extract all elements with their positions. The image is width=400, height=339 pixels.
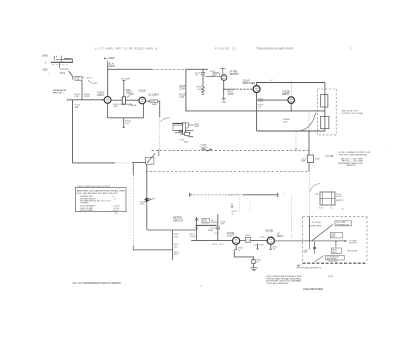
label 02 AF AMPLIFIER bbox=[243, 79, 256, 85]
wire bottom return line bbox=[257, 130, 325, 132]
svg-text:NORM OPER: NORM OPER bbox=[309, 226, 322, 228]
wire grid return vertical bbox=[171, 230, 173, 260]
resistor R121 box bbox=[245, 235, 259, 246]
wire cathode V101B down bbox=[143, 104, 145, 118]
wire cathode bus lower bbox=[234, 250, 254, 257]
resistor R120 drop bbox=[235, 244, 244, 251]
svg-text:1OK: 1OK bbox=[220, 224, 225, 226]
wire diag pointer bbox=[315, 255, 324, 262]
resistor R108 zigzag bbox=[197, 86, 205, 95]
svg-text:. . . . . . . .: . . . . . . . . bbox=[96, 196, 103, 198]
node line tick bbox=[45, 62, 47, 63]
label V103A 12AU7 bbox=[227, 232, 235, 238]
arc supply pointer bbox=[310, 184, 320, 192]
capacitor C106 bbox=[208, 214, 226, 246]
svg-text:+12 VU: +12 VU bbox=[105, 200, 112, 202]
resistor R102 label row bbox=[75, 94, 91, 98]
svg-text:OUTPUT: OUTPUT bbox=[349, 243, 358, 245]
svg-text:KEY SHOWN IN NORM POS: KEY SHOWN IN NORM POS bbox=[296, 267, 321, 269]
svg-text:.1MF: .1MF bbox=[76, 79, 80, 81]
label METER CIRCUIT bbox=[173, 216, 184, 222]
svg-text:↓: ↓ bbox=[391, 143, 392, 146]
svg-text:. . . . . . .: . . . . . . . bbox=[96, 208, 102, 210]
wire plate line to output bbox=[257, 83, 325, 86]
tube V101B bbox=[139, 97, 146, 104]
wire dotted link down bbox=[308, 171, 310, 216]
svg-text:COPY ALSO APPLIES: COPY ALSO APPLIES bbox=[266, 282, 289, 285]
wire to switch bbox=[132, 161, 146, 163]
svg-text:MON OUT AMP: MON OUT AMP bbox=[80, 209, 94, 212]
wire cathode V102A down bbox=[256, 93, 258, 131]
svg-text:1OOK: 1OOK bbox=[197, 89, 204, 91]
svg-text:2.2K: 2.2K bbox=[258, 101, 263, 103]
wire switch drop bbox=[132, 163, 134, 175]
wire B plate supply link bbox=[190, 193, 278, 198]
svg-text:FIG. 172 TRANSMISSION CIRCUIT: FIG. 172 TRANSMISSION CIRCUIT DESIGN bbox=[73, 282, 122, 285]
junction rail node bbox=[291, 110, 292, 111]
resistor drop mid bbox=[256, 244, 258, 250]
svg-text:LINE AMPLIFIER: LINE AMPLIFIER bbox=[303, 287, 323, 291]
svg-text:PGM AMP: PGM AMP bbox=[80, 202, 89, 205]
svg-text:5OK: 5OK bbox=[214, 233, 219, 235]
wire meter bus horizontal bbox=[147, 229, 197, 231]
wire C101 to grid bus bbox=[81, 80, 83, 100]
wire dotted drops to lower row bbox=[239, 197, 241, 214]
svg-text:5OOK: 5OOK bbox=[203, 222, 209, 224]
wire cathode V102B to rail bbox=[290, 103, 292, 111]
jack strip assembly bbox=[173, 123, 195, 137]
tube V101B labels bbox=[138, 90, 159, 96]
svg-text:1OO: 1OO bbox=[246, 240, 250, 242]
wire B+ dropper vertical bbox=[185, 69, 187, 111]
svg-text:C1O7: C1O7 bbox=[253, 244, 259, 246]
resistor chain labels bbox=[174, 234, 180, 256]
table of levels bbox=[75, 185, 126, 215]
svg-text:TERM: TERM bbox=[221, 102, 227, 104]
resistor R116 box bbox=[202, 219, 218, 224]
note text block right bbox=[338, 152, 371, 167]
wire supply into box bbox=[309, 217, 311, 242]
svg-text:12AU7: 12AU7 bbox=[227, 235, 235, 238]
svg-text:PAD: PAD bbox=[331, 235, 335, 238]
wire ground rail bbox=[186, 110, 325, 112]
svg-text:NOTE: CONNECT OUTPUT COIL: NOTE: CONNECT OUTPUT COIL bbox=[339, 152, 372, 154]
wire dotted long drop bbox=[132, 175, 134, 246]
label TO LINE bbox=[349, 240, 358, 244]
ground symbol small bbox=[231, 204, 239, 216]
svg-text:47K: 47K bbox=[114, 106, 118, 108]
title header text bbox=[95, 47, 352, 51]
ground main bbox=[250, 268, 257, 271]
wire dotted feedback tap bbox=[295, 132, 297, 149]
jack labels bbox=[179, 124, 200, 143]
svg-text:V1O3B: V1O3B bbox=[266, 230, 274, 232]
svg-text:2MF: 2MF bbox=[301, 161, 306, 163]
svg-text:KEY OPER: KEY OPER bbox=[329, 261, 339, 263]
wire dash line lower bbox=[146, 170, 309, 172]
svg-text:12-B: 12-B bbox=[328, 276, 333, 278]
svg-text:4 MFD: 4 MFD bbox=[129, 94, 135, 96]
svg-text:12AU7: 12AU7 bbox=[97, 94, 105, 97]
svg-text:22O: 22O bbox=[220, 244, 224, 246]
svg-text:12BH7: 12BH7 bbox=[282, 93, 290, 96]
svg-text:1.5K: 1.5K bbox=[179, 97, 184, 99]
svg-text:3OOV: 3OOV bbox=[336, 196, 342, 198]
svg-text:A 172 AMPL RPT 21-BF REQD AMP: A 172 AMPL RPT 21-BF REQD AMPL A bbox=[95, 47, 157, 51]
svg-text:SUP: SUP bbox=[283, 122, 288, 124]
svg-text:V1O1B: V1O1B bbox=[138, 90, 146, 92]
svg-text:AMPLIFIER: AMPLIFIER bbox=[243, 82, 256, 85]
wire main input bbox=[67, 98, 104, 101]
label V103B 12AU7 bbox=[266, 230, 285, 238]
capacitor C102 label below bbox=[74, 105, 80, 109]
svg-text:6OO: 6OO bbox=[140, 204, 145, 206]
svg-text:R1O1 1MF: R1O1 1MF bbox=[121, 79, 131, 81]
resistor R111 labels bbox=[258, 99, 264, 103]
svg-text:FOR LINE AMP AND REC AMP USE S: FOR LINE AMP AND REC AMP USE SET bbox=[77, 192, 119, 195]
label S101 KEY bbox=[309, 222, 322, 228]
svg-text:47OK: 47OK bbox=[84, 96, 90, 98]
svg-text:METER: METER bbox=[211, 222, 218, 224]
wire plate V101A up bbox=[107, 62, 109, 97]
svg-text:LINE: LINE bbox=[42, 54, 48, 58]
resistor R110 labels bbox=[227, 91, 234, 96]
wire stub below S101 bbox=[309, 242, 311, 250]
svg-text:INPUT ONLY→: INPUT ONLY→ bbox=[53, 93, 64, 95]
arc jack pointer bbox=[161, 118, 171, 122]
box pad bbox=[330, 232, 342, 238]
resistor gain box after V101B bbox=[146, 100, 158, 106]
svg-text:JACK: JACK bbox=[195, 125, 201, 128]
tube V103A bbox=[233, 237, 240, 244]
svg-text:GAIN: GAIN bbox=[152, 103, 157, 106]
svg-text:12.: 12. bbox=[200, 286, 203, 288]
transformer T101 bbox=[51, 56, 73, 69]
resistor R124 drop bbox=[252, 257, 262, 268]
label E101 tone bbox=[201, 144, 209, 148]
wire feedback vertical left bbox=[72, 100, 74, 163]
switch S102 box bbox=[146, 149, 159, 164]
wire cathode bus bbox=[108, 117, 144, 119]
wire to mon jack bbox=[335, 242, 337, 248]
transformer T103 dashed enclosure bbox=[318, 89, 337, 135]
box monitor amp bbox=[326, 255, 345, 263]
transformer winding lower bbox=[321, 116, 329, 128]
resistor R122 drop bbox=[270, 244, 279, 250]
label V102B 12BH7 bbox=[282, 90, 290, 96]
arc cable flourish bbox=[301, 113, 316, 131]
svg-text:22OK: 22OK bbox=[179, 89, 185, 91]
capacitor C102 vertical bbox=[122, 80, 126, 96]
tube V101A labels bbox=[97, 92, 105, 98]
svg-text:+4: +4 bbox=[114, 198, 116, 200]
tube V102B bbox=[288, 97, 295, 104]
capacitor C110 drop bbox=[304, 242, 317, 254]
svg-text:LEVEL: LEVEL bbox=[201, 147, 209, 149]
transformer winding upper bbox=[321, 95, 328, 107]
wire C105 branch down bbox=[308, 113, 310, 131]
wire feedback horizontal bbox=[73, 162, 116, 164]
label BRIDGING input bbox=[53, 90, 67, 94]
svg-text:B+ PLATE SUPPLY: B+ PLATE SUPPLY bbox=[225, 194, 242, 197]
tube V103B bbox=[267, 237, 274, 244]
arrow to note bbox=[325, 155, 333, 157]
wire grid V102B bbox=[257, 99, 288, 101]
svg-text:4MF: 4MF bbox=[74, 107, 79, 109]
junction out node bbox=[335, 241, 336, 242]
resistor R106 labels bbox=[179, 95, 186, 100]
svg-text:1OOK: 1OOK bbox=[227, 94, 234, 96]
svg-text:C1O8: C1O8 bbox=[212, 244, 218, 246]
node B+ feed bbox=[104, 56, 115, 63]
label 01A GAIN bbox=[109, 63, 115, 69]
svg-text:25O: 25O bbox=[174, 246, 178, 248]
grid tick bbox=[102, 99, 104, 101]
svg-text:C1O2: C1O2 bbox=[92, 83, 98, 85]
wire output row into box bbox=[274, 240, 344, 242]
svg-text:OFF NORM: OFF NORM bbox=[347, 251, 358, 253]
svg-text:FOR 6OO OHM LINE AS REQ: FOR 6OO OHM LINE AS REQ bbox=[339, 154, 368, 157]
label PLATE bbox=[283, 118, 290, 123]
wire between tubes bbox=[240, 239, 248, 241]
resistor R115 label bbox=[260, 237, 264, 246]
wire to V103B bbox=[251, 239, 268, 241]
resistor R107 box bbox=[205, 71, 221, 77]
svg-text:◆—150V: ◆—150V bbox=[104, 56, 115, 60]
tube V101A bbox=[104, 97, 111, 104]
wire grid V102A bbox=[224, 88, 236, 90]
resistor R104 drop bbox=[123, 118, 132, 128]
wire corner to meter bus bbox=[133, 246, 172, 250]
labels below wire R103 bbox=[114, 104, 137, 108]
svg-text:JACK: JACK bbox=[332, 251, 338, 254]
svg-text:5OOK: 5OOK bbox=[190, 236, 196, 238]
svg-text:R1O5: R1O5 bbox=[151, 101, 156, 103]
tube V102A bbox=[253, 86, 260, 93]
wire lower main row bbox=[191, 239, 232, 241]
dashed box line out bbox=[303, 217, 367, 264]
switch arm in box bbox=[312, 225, 332, 241]
svg-text:. . . . . . .: . . . . . . . bbox=[96, 198, 102, 200]
node LINE input label bbox=[41, 54, 49, 72]
svg-text:. . . . . . .: . . . . . . . bbox=[96, 206, 102, 208]
svg-text:GAIN: GAIN bbox=[109, 65, 115, 68]
svg-text:→600: →600 bbox=[41, 67, 48, 71]
svg-text:S1O1 KEY: S1O1 KEY bbox=[312, 222, 322, 224]
svg-text:TRANSMISSION AMPLIFIER: TRANSMISSION AMPLIFIER bbox=[256, 47, 293, 51]
label SEE NOTE OUTPUT COIL bbox=[341, 110, 363, 114]
svg-text:R115: R115 bbox=[260, 237, 264, 239]
power supply block PS101 bbox=[319, 192, 344, 210]
wire V101A to V101B bbox=[111, 99, 139, 101]
svg-text:B+: B+ bbox=[342, 208, 344, 210]
capacitor C101 box bbox=[75, 76, 84, 81]
svg-text:OUTPUT COIL CONN: OUTPUT COIL CONN bbox=[341, 113, 363, 115]
svg-text:TONE A: TONE A bbox=[128, 104, 137, 107]
capacitor C105 box bbox=[301, 155, 321, 163]
wire dotted B tap bbox=[290, 196, 292, 239]
svg-text:R1O9: R1O9 bbox=[210, 71, 215, 73]
svg-text:12AU7: 12AU7 bbox=[277, 235, 285, 238]
box mon jack bbox=[331, 248, 357, 254]
svg-text:68O: 68O bbox=[260, 244, 264, 246]
wire dotted down to jack bbox=[159, 117, 161, 151]
svg-text:C1O9: C1O9 bbox=[150, 198, 156, 200]
svg-text:5OK: 5OK bbox=[174, 236, 179, 238]
arrowhead line out bbox=[344, 240, 347, 242]
box 600 term bbox=[335, 221, 352, 227]
label ATTEN ADJUST bbox=[230, 71, 240, 77]
svg-text:R1O1: R1O1 bbox=[87, 77, 93, 79]
wire from T101 secondary down bbox=[69, 71, 73, 80]
wire through windings bbox=[324, 83, 326, 132]
wire dotted plate to V102B bbox=[290, 83, 292, 97]
svg-text:SHEET A: SHEET A bbox=[346, 164, 355, 167]
resistor R114 on vertical bbox=[140, 164, 156, 230]
svg-text:6OO: 6OO bbox=[174, 254, 179, 256]
note text block bottom bbox=[266, 275, 302, 285]
svg-text:CIRCUIT: CIRCUIT bbox=[173, 219, 184, 222]
node tap T-bar bbox=[220, 68, 225, 70]
wire C105 to dash line bbox=[308, 163, 310, 172]
svg-text:1OMF: 1OMF bbox=[208, 230, 214, 232]
meter symbol bbox=[195, 217, 217, 240]
label R101 bbox=[87, 77, 98, 85]
svg-text:4.7K: 4.7K bbox=[75, 96, 80, 98]
svg-text:ADJUST: ADJUST bbox=[230, 73, 240, 76]
potentiometer R110 bbox=[221, 70, 227, 98]
ground below R110 bbox=[221, 99, 227, 104]
coupling capacitor body bbox=[122, 94, 135, 104]
svg-text:JACK: JACK bbox=[184, 140, 190, 143]
node E101 blob bbox=[202, 149, 213, 151]
capacitor C104 branch bbox=[195, 69, 206, 87]
svg-text:TERMINATION: TERMINATION bbox=[336, 223, 350, 226]
junction C106 node bbox=[217, 240, 218, 241]
svg-text:FIGURE 12: FIGURE 12 bbox=[215, 47, 236, 51]
svg-text:R121: R121 bbox=[246, 235, 252, 237]
svg-text:R115: R115 bbox=[315, 158, 321, 160]
junction plate node bbox=[291, 82, 292, 83]
labels R117 bbox=[190, 233, 196, 237]
arrowhead key note bbox=[297, 265, 300, 267]
wire cathode V101A down bbox=[107, 103, 109, 118]
svg-text:T101: T101 bbox=[60, 72, 66, 75]
wire V101B output down bbox=[158, 101, 160, 117]
svg-text:AMPLIFIER +8VU GAIN SETTING FO: AMPLIFIER +8VU GAIN SETTING FOR ALL USES bbox=[77, 189, 126, 192]
svg-text:SUPPLY: SUPPLY bbox=[336, 200, 344, 202]
wire dash-dot line upper bbox=[152, 150, 310, 152]
label C102 value bbox=[126, 90, 133, 94]
resistor R105 220K labels bbox=[179, 86, 186, 91]
svg-text:V1O3A: V1O3A bbox=[227, 232, 235, 235]
svg-text:22O: 22O bbox=[125, 123, 129, 125]
svg-text:1/2 12BH7: 1/2 12BH7 bbox=[148, 95, 160, 97]
wire curve pointer bbox=[88, 80, 92, 83]
resistor R113 labels bbox=[258, 104, 264, 108]
wire B+ bus bbox=[108, 68, 152, 70]
svg-text:+24 VU: +24 VU bbox=[113, 210, 120, 212]
